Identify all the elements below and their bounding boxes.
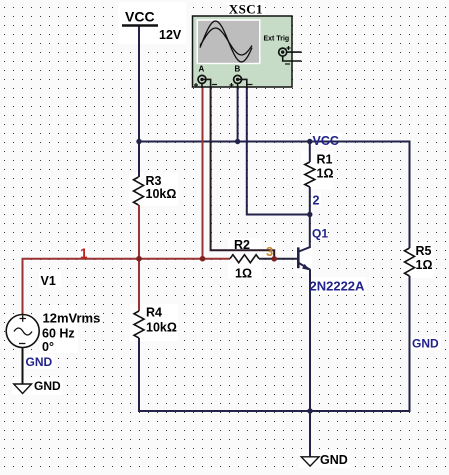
svg-text:B: B (235, 65, 241, 74)
svg-text:XSC1: XSC1 (229, 1, 263, 16)
svg-text:1Ω: 1Ω (235, 267, 252, 281)
svg-text:3: 3 (266, 244, 273, 259)
svg-text:A: A (199, 65, 205, 74)
svg-text:2N2222A: 2N2222A (310, 279, 366, 294)
svg-text:GND: GND (320, 453, 348, 467)
svg-text:2: 2 (313, 194, 320, 208)
svg-text:R4: R4 (146, 306, 162, 320)
svg-text:10kΩ: 10kΩ (146, 321, 177, 335)
svg-text:12mVrms: 12mVrms (43, 311, 101, 326)
svg-text:R2: R2 (234, 238, 250, 252)
svg-text:VCC: VCC (313, 134, 339, 148)
svg-text:Ext Trig: Ext Trig (264, 35, 290, 42)
svg-text:R1: R1 (317, 153, 333, 167)
svg-text:12V: 12V (159, 28, 182, 42)
svg-text:1: 1 (80, 246, 88, 261)
svg-text:10kΩ: 10kΩ (146, 187, 177, 201)
svg-text:GND: GND (26, 355, 53, 369)
svg-text:R5: R5 (416, 244, 432, 258)
svg-text:0°: 0° (42, 340, 54, 354)
svg-text:GND: GND (34, 379, 61, 393)
svg-text:1Ω: 1Ω (416, 258, 433, 272)
svg-text:VCC: VCC (125, 9, 155, 25)
svg-text:V1: V1 (41, 274, 56, 288)
svg-text:Q1: Q1 (312, 226, 328, 240)
svg-text:GND: GND (412, 336, 439, 350)
svg-text:1Ω: 1Ω (317, 167, 334, 181)
svg-text:60 Hz: 60 Hz (42, 327, 75, 341)
